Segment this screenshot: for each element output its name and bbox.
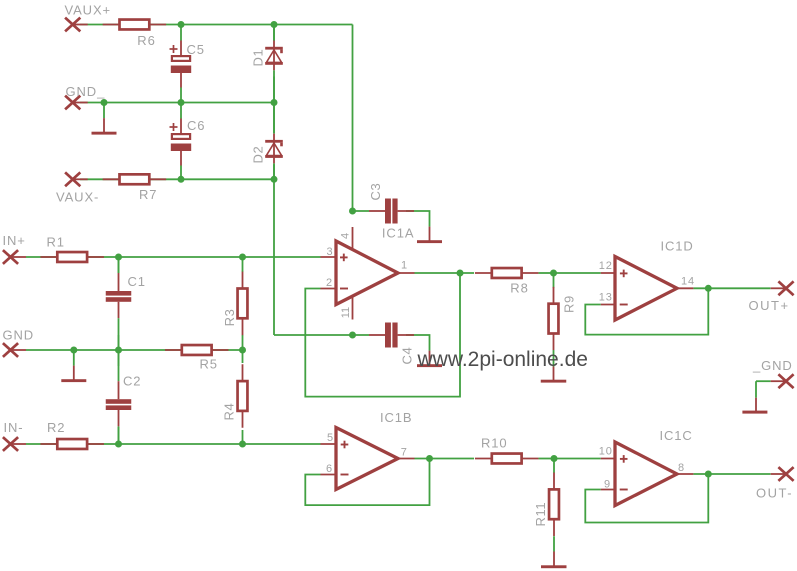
svg-text:3: 3 <box>326 246 333 258</box>
wire D2 column bottom <box>273 164 275 179</box>
pin number 10 <box>599 445 613 457</box>
pin number 1 <box>401 260 408 272</box>
wire R4 top stub <box>242 350 244 363</box>
label IC1A <box>382 225 415 240</box>
op-amp IC1A <box>336 241 398 305</box>
op-amp IC1A plus <box>340 254 348 262</box>
svg-text:4: 4 <box>340 233 352 239</box>
svg-text:OUT+: OUT+ <box>749 298 790 313</box>
resistor R10 <box>475 454 539 464</box>
wire IN- row <box>26 443 321 445</box>
node IN+/R3 <box>239 254 246 261</box>
label R4 <box>222 403 237 421</box>
svg-text:R7: R7 <box>139 187 157 202</box>
svg-text:2: 2 <box>326 277 333 289</box>
capacitor C3 <box>369 199 414 224</box>
resistor R4 <box>238 364 248 428</box>
node VAUX-/D2 <box>271 176 278 183</box>
svg-text:6: 6 <box>326 463 333 475</box>
wire C3 to ground corner <box>406 210 430 212</box>
svg-text:D2: D2 <box>251 146 266 164</box>
node IC1A output <box>457 270 464 277</box>
node GND/C1C2 <box>115 347 122 354</box>
svg-text:R2: R2 <box>47 420 65 435</box>
ground at _GND <box>742 398 767 414</box>
wire C2 bottom stub <box>118 427 120 444</box>
resistor R6 <box>103 20 166 30</box>
capacitor C5 <box>170 25 192 103</box>
label C1 <box>128 274 146 289</box>
wire D1 column top <box>273 25 275 41</box>
label R9 <box>562 295 577 313</box>
pin VAUX+ <box>65 18 80 32</box>
pin number 9 <box>604 479 611 491</box>
label R10 <box>481 435 508 450</box>
label IC1C <box>660 428 693 443</box>
node VAUX-/C6 <box>178 176 185 183</box>
resistor R8 <box>475 268 539 278</box>
ground at R11 <box>541 552 567 569</box>
label VAUX- <box>56 190 99 205</box>
op-amp IC1D <box>615 257 677 321</box>
label C3 <box>368 183 383 201</box>
op-amp IC1B minus <box>341 474 349 476</box>
op-amp IC1D minus <box>620 304 628 306</box>
svg-text:12: 12 <box>599 260 613 272</box>
node R10/R11 <box>551 455 558 462</box>
svg-text:7: 7 <box>401 446 408 458</box>
svg-text:C2: C2 <box>123 374 141 389</box>
node GND_/C6 <box>178 99 185 106</box>
wire R3 bottom stub <box>242 335 244 350</box>
wire C3 node to cap <box>353 210 370 212</box>
svg-text:R4: R4 <box>222 403 237 421</box>
label R1 <box>47 235 65 250</box>
pin number 5 <box>327 432 334 444</box>
label VAUX+ <box>65 2 112 17</box>
diode D1 <box>265 25 283 103</box>
wire D2 column top <box>273 103 275 134</box>
diode D2 <box>265 103 283 180</box>
svg-text:R1: R1 <box>47 235 65 250</box>
resistor R5 <box>165 345 229 355</box>
resistor R7 <box>103 174 166 184</box>
pin stub _GND <box>771 380 786 382</box>
op-amp IC1C <box>615 442 677 506</box>
op-amp IC1B plus <box>341 441 349 449</box>
svg-text:C5: C5 <box>187 42 205 57</box>
wire R11 node to pin 10 <box>554 458 601 460</box>
pin IN+ <box>3 250 18 264</box>
wire R10 to R11 node <box>539 458 555 460</box>
wire _GND pin to ground <box>756 381 771 398</box>
op-amp IC1A pin 4 stub <box>352 227 354 250</box>
svg-text:8: 8 <box>678 462 685 474</box>
resistor R9 <box>549 287 559 351</box>
ground at GND_ pin <box>92 103 117 135</box>
pin number 13 <box>599 291 613 303</box>
op-amp IC1C pin 10 stub <box>601 458 617 460</box>
pin stub IN- <box>11 443 27 445</box>
op-amp IC1A pin 3 stub <box>321 256 339 258</box>
resistor R3 <box>238 272 248 336</box>
node GND_/D2 <box>271 99 278 106</box>
pin number 2 <box>326 277 333 289</box>
resistor R1 <box>40 252 103 262</box>
node at C4 / V- <box>349 332 356 339</box>
pin number 7 <box>401 446 408 458</box>
capacitor C1 <box>106 257 132 350</box>
wire IC1D output to OUT+ <box>693 287 770 289</box>
label GND_ <box>66 84 106 99</box>
svg-text:IN-: IN- <box>4 420 24 435</box>
wire IC1C output to OUT- <box>693 473 770 475</box>
resistor R2 <box>40 439 103 449</box>
wire R9 node to pin 12 <box>554 272 601 274</box>
pin stub VAUX+ <box>73 24 88 26</box>
label C5 <box>187 42 205 57</box>
wire IC1A output row <box>415 272 475 274</box>
watermark www.2pi-online.de <box>417 348 588 371</box>
pin number 4 <box>340 233 352 239</box>
node GND/R3R4 <box>239 347 246 354</box>
pin GND <box>3 343 18 357</box>
pin stub GND <box>11 349 27 351</box>
wire C2 top stub <box>118 350 120 366</box>
node VAUX+/C5 <box>178 21 185 28</box>
svg-text:IC1B: IC1B <box>380 410 413 425</box>
svg-text:C6: C6 <box>187 118 205 133</box>
label OUT+ <box>749 298 790 313</box>
svg-text:_GND: _GND <box>752 358 793 373</box>
pin VAUX- <box>65 172 80 186</box>
wire R8 to R9 node <box>539 272 554 274</box>
pin stub OUT+ <box>771 287 786 289</box>
pin stub GND_ <box>73 102 88 104</box>
op-amp IC1C pin 8 stub <box>676 473 693 475</box>
ground stub below R9 <box>553 350 555 366</box>
wire VAUX- rail <box>80 178 274 180</box>
op-amp IC1A pin 11 stub <box>352 295 354 320</box>
node GND ground <box>70 347 77 354</box>
ground at GND pin <box>61 350 86 382</box>
label R5 <box>200 357 218 372</box>
pin _GND <box>778 374 793 388</box>
wire R11 top stub <box>553 459 555 473</box>
op-amp IC1B pin 6 stub <box>321 474 339 476</box>
ground at C4 <box>417 335 442 367</box>
svg-text:VAUX-: VAUX- <box>56 190 99 205</box>
svg-text:IC1C: IC1C <box>660 428 693 443</box>
op-amp IC1C plus <box>620 455 628 463</box>
wire C1 top stub <box>118 257 120 273</box>
wire VAUX+ rail vertical to C3 node <box>352 25 354 212</box>
wire VAUX+ rail <box>80 24 353 26</box>
wire D1 column bottom <box>273 77 275 103</box>
wire IC1C feedback loop <box>585 474 708 523</box>
svg-text:1: 1 <box>401 260 408 272</box>
label GND <box>3 328 35 343</box>
node R8/R9 <box>550 270 557 277</box>
svg-text:R5: R5 <box>200 357 218 372</box>
label IC1B <box>380 410 413 425</box>
wire R4 bottom stub <box>242 430 244 444</box>
svg-text:5: 5 <box>327 432 334 444</box>
op-amp IC1D plus <box>620 270 628 278</box>
label R8 <box>510 281 528 296</box>
op-amp IC1D pin 13 stub <box>601 304 617 306</box>
op-amp IC1D pin 12 stub <box>601 272 617 274</box>
wire C4 node to cap <box>353 334 370 336</box>
resistor R11 <box>549 473 559 537</box>
svg-text:10: 10 <box>599 445 613 457</box>
pin number 14 <box>681 276 695 288</box>
pin number 12 <box>599 260 613 272</box>
label IN- <box>4 420 24 435</box>
svg-text:VAUX+: VAUX+ <box>65 2 112 17</box>
svg-text:11: 11 <box>340 307 352 318</box>
op-amp IC1C pin 9 stub <box>601 489 617 491</box>
label _GND <box>752 358 793 373</box>
wire IC1A feedback loop <box>305 273 460 397</box>
op-amp IC1D pin 14 stub <box>676 287 693 289</box>
node IN+/C1 <box>115 254 122 261</box>
node IN-/R4 <box>239 441 246 448</box>
pin number 3 <box>326 246 333 258</box>
wire C1 bottom stub <box>118 335 120 350</box>
op-amp IC1B <box>336 428 398 490</box>
svg-text:R9: R9 <box>562 295 577 313</box>
capacitor C6 <box>170 103 192 180</box>
label R2 <box>47 420 65 435</box>
svg-text:D1: D1 <box>251 49 266 67</box>
capacitor C4 <box>369 323 414 348</box>
op-amp IC1A pin 2 stub <box>321 288 339 290</box>
svg-text:IC1A: IC1A <box>382 225 415 240</box>
op-amp IC1C minus <box>620 489 628 491</box>
ground stub below R11 <box>553 536 555 551</box>
pin number 8 <box>678 462 685 474</box>
capacitor C2 <box>106 350 132 444</box>
label OUT- <box>756 485 793 500</box>
label C4 <box>400 347 415 365</box>
node IC1D output <box>705 285 712 292</box>
svg-text:9: 9 <box>604 479 611 491</box>
svg-text:GND: GND <box>3 328 35 343</box>
label R3 <box>222 309 237 327</box>
label IC1D <box>661 239 694 254</box>
wire C4 to ground corner <box>406 334 430 336</box>
svg-text:R6: R6 <box>137 33 155 48</box>
pin IN- <box>3 437 18 451</box>
pin GND_ <box>65 96 80 110</box>
svg-text:R3: R3 <box>222 309 237 327</box>
svg-text:R11: R11 <box>533 502 548 527</box>
wire R3 top stub <box>242 257 244 272</box>
svg-text:C3: C3 <box>368 183 383 201</box>
pin OUT+ <box>778 281 793 295</box>
pin stub VAUX- <box>73 178 88 180</box>
node IN-/C2 <box>115 441 122 448</box>
label R6 <box>137 33 155 48</box>
wire GND row <box>26 349 243 351</box>
node IC1B output <box>426 455 433 462</box>
label D2 <box>251 146 266 164</box>
node GND_ ground <box>101 99 108 106</box>
pin number 11 <box>340 307 352 318</box>
wire V- horizontal to pin 11 node <box>274 334 353 336</box>
wire IN+ row <box>26 256 321 258</box>
label R7 <box>139 187 157 202</box>
svg-text:C1: C1 <box>128 274 146 289</box>
svg-text:OUT-: OUT- <box>756 485 793 500</box>
svg-text:C4: C4 <box>400 347 415 365</box>
pin stub OUT- <box>771 473 786 475</box>
svg-text:R8: R8 <box>510 281 528 296</box>
label R11 <box>533 502 548 527</box>
op-amp IC1B pin 5 stub <box>321 443 339 445</box>
label C2 <box>123 374 141 389</box>
pin number 6 <box>326 463 333 475</box>
ground at C3 <box>417 211 442 243</box>
svg-text:13: 13 <box>599 291 613 303</box>
node at C3 / V+ <box>349 208 356 215</box>
svg-text:IN+: IN+ <box>3 233 26 248</box>
svg-text:GND_: GND_ <box>66 84 106 99</box>
ground at R9 <box>541 367 567 383</box>
op-amp IC1A minus <box>340 288 348 290</box>
op-amp IC1A pin 1 stub <box>397 272 415 274</box>
label IN+ <box>3 233 26 248</box>
wire IC1B output row <box>415 458 475 460</box>
wire IC1B feedback loop <box>305 459 429 506</box>
svg-text:www.2pi-online.de: www.2pi-online.de <box>417 348 588 371</box>
node IC1C output <box>705 471 712 478</box>
label D1 <box>251 49 266 67</box>
pin stub IN+ <box>11 256 27 258</box>
op-amp IC1B pin 7 stub <box>397 458 415 460</box>
node VAUX+/D1 <box>271 21 278 28</box>
svg-text:14: 14 <box>681 276 695 288</box>
wire R9 top stub <box>553 273 555 288</box>
label C6 <box>187 118 205 133</box>
svg-text:IC1D: IC1D <box>661 239 694 254</box>
svg-text:R10: R10 <box>481 435 508 450</box>
pin OUT- <box>778 467 793 481</box>
wire GND_ rail <box>80 102 274 104</box>
wire VAUX- vertical to V- node <box>273 179 275 335</box>
wire IC1D feedback loop <box>585 288 708 334</box>
